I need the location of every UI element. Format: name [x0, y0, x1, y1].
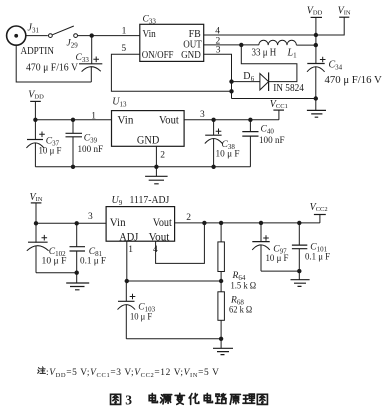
switch J29	[49, 26, 78, 37]
ground (U13)	[145, 176, 168, 184]
resistor R68	[218, 281, 225, 339]
svg-text:Vout: Vout	[149, 229, 170, 243]
power flag VCC1	[270, 99, 288, 120]
junction dot R68 bottom	[219, 337, 223, 341]
capacitor C40	[242, 120, 258, 167]
svg-text:ADJ: ADJ	[119, 229, 138, 243]
junction dot FB node	[314, 33, 318, 37]
plus sign C97	[263, 235, 269, 241]
svg-text:1: 1	[91, 111, 96, 121]
note line	[38, 367, 220, 379]
power flag VDD (right)	[307, 5, 323, 35]
junction dot C39 top	[71, 118, 75, 122]
wire U9 Vout to VCC2	[175, 222, 320, 224]
capacitor C39	[66, 120, 83, 167]
plus sign C37	[39, 132, 45, 138]
wire GND down	[204, 54, 232, 98]
svg-text:GND: GND	[181, 49, 201, 61]
svg-text:10 μ F: 10 μ F	[39, 147, 62, 157]
svg-text:1117-ADJ: 1117-ADJ	[130, 195, 170, 206]
ground (top right)	[307, 99, 326, 118]
wire middle ground rail	[35, 166, 250, 168]
capacitor C101	[292, 223, 307, 271]
junction dot C101 top	[297, 221, 301, 225]
svg-text:3: 3	[88, 212, 93, 222]
junction dot Vout2 link	[202, 221, 206, 225]
capacitor C97	[252, 223, 270, 271]
wire C103 bottom to R68 bottom	[126, 338, 221, 340]
junction dot VIN node	[34, 221, 38, 225]
wire VIN to U9 Vin	[36, 222, 106, 224]
wire jack sleeve loop	[16, 45, 91, 82]
wire ON/OFF return	[111, 54, 231, 91]
wire VDD to U13 Vin	[35, 119, 111, 121]
svg-text:ON/OFF: ON/OFF	[142, 49, 174, 61]
svg-text:Vin: Vin	[117, 112, 133, 126]
ground (C101)	[291, 271, 310, 286]
power flag VCC2	[310, 202, 328, 223]
wire FB to output node	[204, 34, 316, 36]
plus sign C38	[216, 129, 222, 135]
junction dot L1 output	[314, 43, 318, 47]
svg-text:62 k Ω: 62 k Ω	[229, 306, 252, 316]
svg-text:1: 1	[122, 27, 127, 37]
svg-text:Vout: Vout	[153, 215, 173, 229]
buck regulator IC C33	[140, 24, 204, 61]
junction dot C81 bottom	[75, 271, 79, 275]
svg-text:3: 3	[200, 110, 205, 120]
wire U9 Vout2 link	[156, 223, 205, 264]
svg-text:33 μ H: 33 μ H	[252, 48, 277, 59]
plus sign C103	[130, 294, 136, 300]
svg-text:10 μ F: 10 μ F	[42, 257, 67, 267]
svg-text:10 μ F: 10 μ F	[130, 313, 152, 323]
svg-text:Vout: Vout	[159, 112, 179, 126]
capacitor C102	[27, 223, 49, 272]
junction dot OUT node	[239, 43, 243, 47]
regulator U13	[112, 111, 185, 147]
capacitor C34	[307, 35, 325, 99]
junction dot ground rail right	[314, 96, 318, 100]
power flag VDD (left)	[28, 90, 44, 120]
svg-text:470 μ F/16 V: 470 μ F/16 V	[26, 63, 79, 74]
wire diode anode	[232, 81, 260, 83]
plus sign C34	[320, 57, 326, 63]
svg-text:10 μ F: 10 μ F	[266, 254, 289, 264]
junction dot C38 top	[211, 118, 215, 122]
wire inductor to output node	[296, 44, 315, 46]
plus sign C102	[42, 235, 48, 241]
resistor R64	[218, 223, 225, 281]
svg-text:ADPTIN: ADPTIN	[21, 45, 54, 57]
svg-text:2: 2	[160, 151, 165, 161]
wire OUT node to diode cathode	[241, 45, 297, 82]
svg-text:GND: GND	[137, 132, 160, 146]
ground (C81)	[66, 273, 89, 290]
junction dot C39 bottom	[71, 165, 75, 169]
junction dot C81 top	[75, 221, 79, 225]
wire U13 GND down	[155, 146, 157, 176]
junction dot divider node	[219, 279, 223, 283]
junction dot R64 top	[219, 221, 223, 225]
junction dot C40 top	[248, 118, 252, 122]
junction dot C101 bottom	[297, 269, 301, 273]
wire U13 Vout to VCC1	[184, 119, 279, 121]
wire top ground rail	[232, 98, 316, 100]
svg-text:470 μ F/16 V: 470 μ F/16 V	[325, 75, 383, 86]
wire C97 bottom to C101 bottom	[261, 270, 299, 272]
junction dot diode anode	[229, 79, 233, 83]
svg-text:100 nF: 100 nF	[78, 145, 104, 155]
svg-text:IN 5824: IN 5824	[273, 83, 304, 94]
ground (R68)	[213, 339, 233, 355]
svg-text:10 μ F: 10 μ F	[216, 150, 240, 160]
wire ADJ to divider	[127, 280, 221, 282]
svg-text:100 nF: 100 nF	[259, 136, 285, 146]
svg-text:0.1 μ F: 0.1 μ F	[305, 253, 330, 263]
junction dot C38 bottom	[211, 165, 215, 169]
svg-text:1.5 k Ω: 1.5 k Ω	[231, 282, 257, 292]
junction dot U13 gnd	[154, 165, 158, 169]
regulator U9 1117-ADJ	[106, 207, 175, 244]
capacitor C33' (470uF input)	[79, 36, 102, 82]
plus sign C33'	[93, 57, 99, 63]
connector J31 (DC adapter jack)	[7, 26, 26, 45]
svg-text:Vin: Vin	[110, 215, 126, 229]
wire switch to buck Vin	[78, 35, 140, 37]
capacitor C38	[205, 120, 223, 167]
capacitor C81	[70, 223, 86, 272]
inductor L1	[259, 40, 297, 45]
caption line	[111, 392, 268, 407]
capacitor C37	[26, 120, 44, 167]
junction dot ADJ node	[125, 279, 129, 283]
power flag VIN (top)	[316, 5, 351, 35]
wire jack to switch	[26, 35, 48, 37]
junction dot VDD node	[33, 118, 37, 122]
wire C102 to C81 bottom	[36, 272, 77, 274]
wire U9 ADJ down	[126, 241, 128, 281]
svg-text:3: 3	[125, 392, 132, 407]
svg-text:Vin: Vin	[143, 28, 157, 40]
svg-text:2: 2	[186, 213, 191, 223]
diode D6	[260, 72, 269, 91]
junction dot C97 top	[259, 221, 263, 225]
svg-text:1: 1	[128, 245, 133, 255]
svg-text:5: 5	[121, 44, 126, 54]
junction dot input node	[90, 33, 94, 37]
capacitor C103	[118, 281, 136, 339]
junction dot ON/OFF return	[229, 89, 233, 93]
svg-text:0.1 μ F: 0.1 μ F	[80, 257, 106, 267]
power flag VIN (bottom)	[30, 192, 43, 223]
wire OUT to inductor	[204, 44, 259, 46]
